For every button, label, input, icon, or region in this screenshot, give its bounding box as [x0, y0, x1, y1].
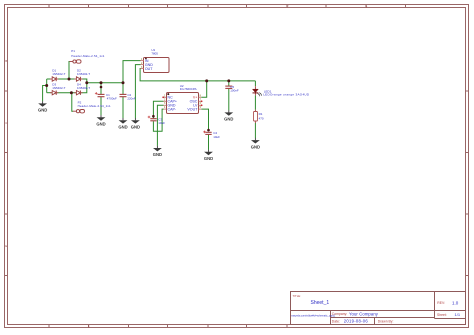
svg-text:B: B: [5, 59, 7, 63]
svg-text:220nF: 220nF: [127, 96, 136, 100]
ground U2: [153, 146, 162, 157]
frame ticks left/right: [5, 91, 469, 276]
svg-text:100nF: 100nF: [230, 89, 239, 93]
svg-text:GND: GND: [96, 122, 105, 127]
svg-text:GND: GND: [118, 124, 127, 129]
svg-text:1/1: 1/1: [455, 312, 461, 317]
ground U1: [131, 118, 140, 129]
wire D2 to corner: [81, 79, 87, 83]
junction D1-D2 to P1: [68, 78, 71, 81]
svg-text:GND: GND: [153, 152, 162, 157]
junction bridge left GND tap: [45, 84, 48, 87]
diode D2: [74, 68, 90, 81]
capacitor C5: [225, 85, 239, 93]
diode D3: [50, 82, 66, 95]
svg-text:GND: GND: [131, 124, 140, 129]
junction bridge output node: [85, 81, 88, 84]
wire bridge left vertical: [46, 79, 48, 93]
junction rail1 C1: [100, 81, 103, 84]
header P1: [69, 49, 104, 63]
svg-text:TITLE:: TITLE:: [293, 294, 302, 298]
capacitor C3: [148, 116, 166, 125]
wire U2 V+ riser: [201, 81, 206, 97]
svg-text:Date:: Date:: [332, 319, 340, 323]
wire C5 drop: [228, 81, 230, 86]
svg-text:10uF: 10uF: [158, 121, 165, 125]
svg-text:GND: GND: [251, 144, 260, 149]
svg-text:Header-Male-2.54_1x1: Header-Male-2.54_1x1: [71, 54, 104, 58]
pin dot C4 top: [207, 129, 210, 132]
diode D1: [50, 68, 66, 81]
wire bottom row: [47, 92, 52, 94]
wire gnd tap bridge: [43, 86, 47, 102]
wire U2 GND drop: [157, 105, 163, 146]
header P2: [73, 100, 111, 113]
wire main rail1: [87, 82, 123, 84]
frame zone labels: [5, 5, 367, 329]
svg-text:P1: P1: [71, 49, 75, 53]
svg-text:1.0: 1.0: [452, 301, 459, 306]
wire U1 IN riser: [123, 61, 141, 83]
wire C5 to gnd: [228, 89, 230, 111]
ground R1: [251, 138, 260, 149]
capacitor C4: [203, 131, 220, 140]
svg-text:7805: 7805: [151, 51, 158, 55]
title block: [291, 292, 466, 325]
LED LED1: [253, 86, 310, 96]
wire C2 drop: [122, 83, 124, 94]
ground bridge: [38, 101, 47, 112]
ground C1: [96, 115, 105, 126]
svg-text:4700uF: 4700uF: [107, 96, 117, 100]
svg-text:Your Company: Your Company: [349, 311, 379, 316]
svg-text:OUT: OUT: [145, 67, 153, 71]
svg-text:Sheet:: Sheet:: [437, 313, 447, 317]
svg-text:1N5402-T: 1N5402-T: [52, 86, 65, 90]
junction D3-D4 to P2: [70, 91, 73, 94]
svg-text:Drawn By:: Drawn By:: [378, 319, 394, 323]
wire C1 drop: [100, 83, 102, 94]
wire P2 drop: [72, 93, 73, 112]
svg-text:VOUT: VOUT: [187, 107, 198, 111]
wire D1-D2: [56, 78, 76, 80]
wire D3-D4: [56, 92, 76, 94]
wire U1 OUT to rail2: [140, 69, 255, 81]
svg-text:GND: GND: [204, 156, 213, 161]
wire LED branch: [254, 81, 256, 86]
wire C4 to gnd: [208, 134, 210, 149]
wire D4 to corner: [81, 83, 87, 93]
svg-text:GND: GND: [224, 117, 233, 122]
charge pump U2: [162, 84, 202, 114]
wire U1 GND drop: [135, 65, 140, 119]
svg-text:1N5402-T: 1N5402-T: [77, 72, 90, 76]
svg-text:1N5402-T: 1N5402-T: [77, 86, 90, 90]
svg-text:REV:: REV:: [437, 301, 445, 305]
pin dot C3 top: [152, 115, 155, 118]
svg-text:1N5402-T: 1N5402-T: [52, 72, 65, 76]
ground C2: [118, 118, 127, 129]
svg-text:Header-Male-2.54_1x1: Header-Male-2.54_1x1: [78, 104, 111, 108]
wire R1 to gnd: [254, 123, 256, 138]
diode D4: [74, 82, 90, 95]
regulator U1: [141, 48, 170, 73]
svg-text:ICL7660CPA: ICL7660CPA: [180, 87, 197, 91]
junction rail2 U2 V+ riser: [205, 79, 208, 82]
ground C5: [224, 110, 233, 121]
svg-text:C: C: [5, 121, 7, 125]
svg-text:10uF: 10uF: [213, 135, 220, 139]
resistor R1: [254, 110, 264, 123]
wire C3 bottom loop to CAP-: [153, 109, 163, 131]
svg-text:easyeda.com/editor#id=schemati: easyeda.com/editor#id=schematic_copy1: [291, 315, 336, 318]
wire U2 VOUT to C4: [201, 109, 208, 131]
capacitor C1: [95, 92, 117, 100]
wire C2 to gnd: [122, 97, 124, 118]
svg-text:CAP-: CAP-: [168, 107, 177, 111]
svg-text:Sheet_1: Sheet_1: [311, 300, 330, 306]
wire P1 riser: [68, 62, 70, 80]
wire top row: [47, 78, 52, 80]
ground C4: [204, 150, 213, 161]
junction rail1 C2 and U1 IN riser: [122, 81, 125, 84]
junction rail2 C5: [227, 79, 230, 82]
svg-text:GND: GND: [38, 108, 47, 113]
wire U2 CAP+ to C3: [153, 101, 163, 118]
wire LED to R1: [254, 95, 256, 109]
frame ticks top/bottom: [49, 5, 406, 328]
svg-text:2019-08-06: 2019-08-06: [344, 318, 369, 323]
svg-text:470: 470: [259, 117, 264, 121]
svg-text:E: E: [5, 244, 7, 248]
svg-text:LEDOrange orange 3AO4UD: LEDOrange orange 3AO4UD: [263, 92, 310, 96]
pin dot C1 top: [100, 86, 103, 89]
wire C1 to gnd: [100, 97, 102, 115]
capacitor C2: [120, 93, 136, 101]
